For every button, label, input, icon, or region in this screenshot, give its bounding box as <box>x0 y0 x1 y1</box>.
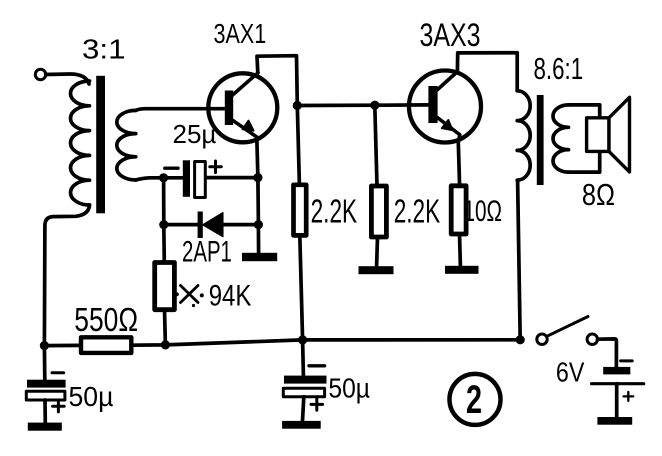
junction node R4 top <box>370 101 379 110</box>
switch S1 throw contact <box>587 334 597 344</box>
wire T1 primary bottom to bottom rail <box>44 205 89 346</box>
label 2.2K first <box>311 192 358 229</box>
ground under battery <box>597 417 632 425</box>
svg-text:10Ω: 10Ω <box>464 195 502 228</box>
resistor R1 wires <box>164 225 166 345</box>
T2 secondary leads to speaker <box>569 105 600 172</box>
junction node rail R1 <box>161 340 170 349</box>
label 50u left <box>69 380 114 412</box>
junction node emitter-cap <box>253 173 262 182</box>
label 25u <box>173 119 217 149</box>
capacitor C3 negative plate <box>284 376 327 384</box>
resistor R3 bottom wire <box>300 235 303 340</box>
wire Q2 collector to T2 primary <box>457 53 517 91</box>
capacitor C2 positive plate <box>26 391 65 400</box>
junction node rail switch <box>516 335 525 344</box>
svg-text:2: 2 <box>466 377 482 422</box>
junction node rail left <box>40 341 49 350</box>
resistor R5 10 ohm body <box>451 186 466 234</box>
battery B1 negative plate <box>603 367 630 375</box>
transformer T2 primary winding <box>517 91 530 180</box>
resistor R4 bottom wire <box>375 237 380 266</box>
transistor Q1 3AX1 circle <box>208 73 277 142</box>
switch S1 lever <box>547 317 588 337</box>
svg-text:6V: 6V <box>556 358 585 388</box>
diode D1 triangle <box>203 213 223 237</box>
resistor R1 94K body <box>155 263 175 310</box>
input terminal J1 <box>35 69 45 79</box>
C3 plus sign <box>311 399 323 411</box>
ground under R4 <box>359 266 394 274</box>
C2 minus sign <box>52 371 64 374</box>
switch S1 pole contact <box>537 334 547 344</box>
bottom rail wire <box>44 340 520 346</box>
transformer T2 secondary winding <box>553 105 569 172</box>
svg-text:50µ: 50µ <box>69 380 114 412</box>
capacitor C2 50u stem <box>43 346 47 380</box>
label 2AP1 <box>182 236 232 269</box>
transistor Q2 base bar <box>428 86 437 123</box>
label 10 ohm <box>464 195 502 228</box>
svg-text:50µ: 50µ <box>328 372 370 404</box>
svg-text:3:1: 3:1 <box>82 34 126 65</box>
wire T1 secondary bottom to node A <box>136 178 164 180</box>
C3 minus sign <box>309 364 325 367</box>
label 2.2K second <box>394 192 441 229</box>
label 94K <box>209 278 252 312</box>
label 8.6:1 <box>534 51 584 85</box>
svg-text:2.2K: 2.2K <box>394 192 441 229</box>
label 550 ohm <box>74 302 138 338</box>
junction node diode right <box>254 220 263 229</box>
label 3AX3 <box>420 18 481 54</box>
C2 stem low <box>43 400 47 423</box>
wire T2 primary bottom to switch node <box>518 180 521 340</box>
wire Q1 emitter down <box>257 137 259 253</box>
svg-text:25µ: 25µ <box>173 119 217 149</box>
speaker cone <box>609 97 630 172</box>
svg-text:3AX1: 3AX1 <box>214 18 267 49</box>
ground under C2 <box>28 423 62 431</box>
wire node A down to diode node <box>162 178 166 225</box>
svg-text:8Ω: 8Ω <box>582 178 615 213</box>
junction node rail C3 <box>298 335 307 344</box>
transistor Q2 emitter arrow <box>442 120 453 130</box>
capacitor C1 negative plate <box>183 160 190 197</box>
transformer T2 core <box>537 95 544 185</box>
svg-text:550Ω: 550Ω <box>74 302 138 338</box>
transformer T1 primary winding <box>70 81 89 205</box>
capacitor C1 positive plate <box>195 162 206 198</box>
resistor R3 2.2K body <box>294 185 307 236</box>
capacitor C1 25u wires <box>164 176 258 180</box>
figure badge numeral 2 <box>466 377 482 422</box>
transformer T1 secondary winding <box>117 110 136 180</box>
svg-text:8.6:1: 8.6:1 <box>534 51 584 85</box>
figure badge circle <box>450 374 501 425</box>
ground under R5 <box>445 266 479 274</box>
ground under C3 <box>282 421 321 429</box>
battery B1 minus sign <box>621 359 633 362</box>
transistor Q2 collector stroke <box>437 72 458 91</box>
wire Q1 collector to top rail to node B <box>257 56 299 185</box>
junction node diode left <box>159 220 168 229</box>
C3 stem low <box>303 397 304 421</box>
transistor Q1 base bar <box>225 91 233 126</box>
svg-text:2AP1: 2AP1 <box>182 236 232 269</box>
wire switch to battery <box>598 339 617 367</box>
wire T1 secondary top to Q1 base <box>136 109 225 111</box>
capacitor C2 negative plate <box>27 380 66 388</box>
battery B1 plus sign <box>624 392 634 401</box>
asterisk mark <box>175 286 204 308</box>
label 8 ohm <box>582 178 615 213</box>
resistor R2 550 ohm body <box>81 337 131 353</box>
svg-text:94K: 94K <box>209 278 252 312</box>
C1 minus sign <box>165 166 178 169</box>
battery B1 stem <box>615 384 619 417</box>
ground under Q1 emitter <box>242 253 277 261</box>
diode D1 cathode bar <box>198 212 203 239</box>
transistor Q1 emitter arrow <box>243 121 254 131</box>
resistor R4 2.2K body <box>371 186 386 237</box>
speaker driver box <box>587 118 609 152</box>
svg-text:2.2K: 2.2K <box>311 192 358 229</box>
transistor Q1 collector stroke <box>232 73 258 96</box>
transistor Q1 emitter stroke <box>232 120 257 137</box>
label 3AX1 <box>214 18 267 49</box>
junction node A <box>159 173 168 182</box>
wire node B to Q2 base <box>297 103 428 107</box>
capacitor C3 positive plate <box>283 388 324 397</box>
transistor Q2 emitter stroke <box>436 117 460 135</box>
label 3:1 <box>82 34 126 65</box>
resistor R4 top wire <box>375 105 377 186</box>
capacitor C3 50u stem <box>301 340 305 376</box>
wire Q2 emitter down to R5 <box>458 135 460 186</box>
wire input terminal to T1 primary <box>46 74 89 84</box>
battery B1 positive plate <box>592 382 644 385</box>
resistor R5 bottom wire <box>458 234 463 266</box>
transistor Q2 3AX3 circle <box>409 71 481 143</box>
label 6V <box>556 358 585 388</box>
transformer T1 core <box>96 76 105 214</box>
svg-text:3AX3: 3AX3 <box>420 18 481 54</box>
diode D1 2AP1 wires <box>164 223 259 227</box>
C1 plus sign <box>210 161 222 173</box>
label 50u middle <box>328 372 370 404</box>
C2 plus sign <box>53 401 65 412</box>
junction node B <box>293 101 302 110</box>
